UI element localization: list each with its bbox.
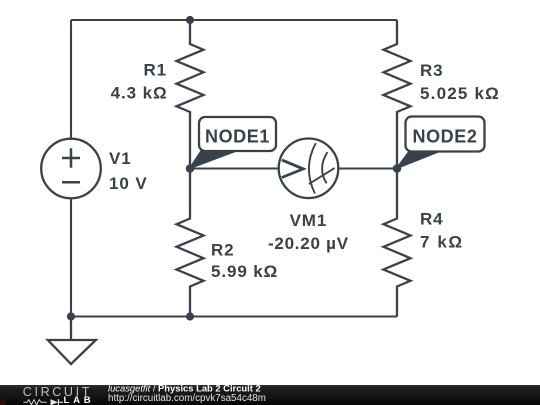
CircuitLab logo	[23, 385, 91, 405]
svg-text:5.025 kΩ: 5.025 kΩ	[420, 84, 500, 103]
footer bar	[0, 385, 540, 405]
voltmeter VM1	[279, 139, 339, 199]
svg-text:10 V: 10 V	[109, 174, 148, 193]
junction dot bottom rail mid	[186, 312, 194, 320]
ground	[48, 317, 96, 365]
resistor R3	[384, 20, 411, 169]
svg-text:NODE2: NODE2	[412, 126, 477, 146]
wire: left vertical top (V1 to top rail)	[70, 20, 72, 139]
svg-text:V1: V1	[109, 149, 132, 168]
wire: NODE1 to voltmeter	[190, 167, 279, 169]
node NODE1 callout	[190, 117, 277, 169]
svg-text:LAB: LAB	[64, 395, 91, 405]
svg-text:NODE1: NODE1	[205, 126, 270, 146]
svg-text:R3: R3	[420, 61, 444, 80]
resistor R2	[177, 169, 204, 317]
svg-text:http://circuitlab.com/cpvk7sa5: http://circuitlab.com/cpvk7sa54c48m	[108, 393, 266, 404]
node NODE2 callout	[397, 117, 485, 169]
svg-text:VM1: VM1	[290, 211, 328, 230]
node NODE1 dot	[186, 164, 195, 173]
svg-text:7 kΩ: 7 kΩ	[420, 233, 464, 252]
wire: top rail	[71, 19, 397, 21]
svg-text:5.99 kΩ: 5.99 kΩ	[211, 262, 278, 281]
junction dot bottom rail left	[67, 312, 75, 320]
voltage source V1	[41, 139, 101, 199]
svg-text:R2: R2	[211, 240, 235, 259]
svg-text:lucasgetfit / Physics Lab 2 Ci: lucasgetfit / Physics Lab 2 Circuit 2	[108, 382, 261, 393]
resistor R1	[177, 20, 204, 169]
svg-text:R1: R1	[143, 61, 167, 80]
wire: voltmeter to NODE2	[338, 167, 397, 169]
footer red corner mark	[0, 398, 6, 405]
junction dot top rail	[186, 16, 194, 24]
wire: left vertical bottom (V1 to bottom rail)	[70, 199, 72, 317]
svg-text:4.3 kΩ: 4.3 kΩ	[111, 83, 168, 102]
wire: bottom rail	[71, 315, 397, 317]
svg-text:-20.20 µV: -20.20 µV	[268, 234, 349, 253]
node NODE2 dot	[393, 164, 402, 173]
resistor R4	[384, 169, 411, 317]
svg-text:R4: R4	[420, 209, 444, 228]
